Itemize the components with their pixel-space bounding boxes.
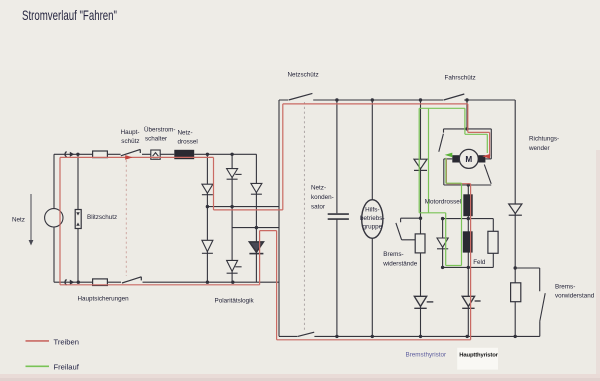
node bottom rail auxiliary bbox=[371, 335, 374, 338]
bus A mid rail bbox=[207, 206, 279, 208]
arrow Netz feed bbox=[29, 194, 34, 246]
node bottom rail right branch bbox=[514, 335, 517, 338]
svg-text:Feld: Feld bbox=[473, 259, 486, 266]
wire bottom main bbox=[54, 281, 279, 283]
switch Bremswiderstand bypass bbox=[396, 218, 421, 240]
red Treiben motor exit bbox=[446, 159, 470, 340]
wire top main bbox=[54, 153, 257, 155]
wire Motordrossel line bbox=[467, 185, 469, 336]
wire bottom thyristor rail bbox=[279, 335, 540, 337]
node top wire v2 bbox=[230, 153, 233, 156]
node Feld group top middle bbox=[467, 217, 470, 220]
green Freilauf motor exit bbox=[446, 158, 462, 266]
wire Netzschütz horizontal bbox=[279, 99, 515, 101]
red Treiben bottom rail underline bbox=[277, 339, 471, 341]
resistor Bremswiderstand bbox=[415, 234, 425, 253]
connector (plug contact) top bbox=[65, 152, 74, 157]
capacitor Netzkondensator bbox=[328, 214, 349, 219]
node Feld group bottom left bbox=[441, 266, 444, 269]
red legend sample Treiben bbox=[26, 340, 50, 342]
switch reverser lower-right bbox=[484, 165, 491, 184]
svg-text:Blitzschutz: Blitzschutz bbox=[87, 214, 117, 221]
polarity bridge vertical 1 bbox=[206, 154, 208, 282]
svg-text:gruppe: gruppe bbox=[362, 223, 382, 230]
diode D1 (upper left) bbox=[202, 184, 213, 195]
switch Netzschütz bottom contact bbox=[298, 332, 315, 336]
Richtungswender bottom rail bbox=[444, 184, 491, 186]
overcurrent breaker box U-schalter bbox=[151, 150, 160, 159]
fuse F2 bottom (Hauptsicherung) bbox=[93, 279, 108, 286]
diode D2 (upper middle) bbox=[227, 169, 242, 180]
svg-text:M: M bbox=[465, 155, 472, 164]
red Treiben bus A underline bbox=[214, 104, 283, 210]
green Freilauf field loop bbox=[419, 213, 461, 266]
svg-text:Hilfs-: Hilfs- bbox=[365, 207, 379, 214]
node rail B diode junction bbox=[255, 226, 258, 229]
green arrow out of motor bbox=[445, 153, 453, 158]
Richtungswender top rail bbox=[444, 129, 492, 159]
svg-text:Motordrossel: Motordrossel bbox=[425, 199, 461, 206]
diode D5 (lower middle) bbox=[227, 260, 242, 273]
svg-text:konden-: konden- bbox=[311, 194, 334, 201]
brush left bbox=[452, 155, 459, 162]
connector (plug contact) bottom bbox=[65, 280, 74, 285]
svg-text:widerstände: widerstände bbox=[382, 261, 417, 268]
svg-text:vorwiderstand: vorwiderstand bbox=[555, 293, 595, 300]
motor M armature bbox=[459, 149, 478, 168]
node bottom rail capacitor bbox=[335, 335, 338, 338]
Feld group bottom rail bbox=[443, 266, 494, 268]
Hauptschütz linkage dashed bbox=[125, 160, 127, 276]
node Fahrschütz wire motor tap bbox=[465, 98, 468, 101]
node Netzschütz wire auxiliary tap bbox=[371, 98, 374, 101]
svg-text:Netzschütz: Netzschütz bbox=[288, 72, 319, 79]
node Bremsvorwiderstand branch bbox=[514, 266, 517, 269]
wire Hilfsbetriebsgruppe branch bbox=[371, 100, 373, 336]
rail B lower rail bbox=[232, 227, 279, 229]
inductor Netzdrossel bbox=[174, 150, 194, 159]
red Treiben top drop bbox=[213, 157, 215, 210]
node Feld group top left bbox=[441, 217, 444, 220]
switch brake contact bbox=[540, 293, 545, 336]
wire left vertical (Netz feed) bbox=[53, 154, 55, 282]
Feld group top rail bbox=[443, 218, 494, 220]
node bottom rail brake branch bbox=[419, 335, 422, 338]
red Treiben motor approach bbox=[468, 104, 490, 156]
wire Feld bypass diode branch bbox=[442, 219, 444, 268]
node bottom wire v2 bbox=[231, 281, 234, 284]
diode D3 (upper right) bbox=[251, 183, 262, 194]
motor right terminal bbox=[485, 158, 491, 160]
wire brake branch vertical bbox=[420, 100, 422, 336]
svg-text:Hauptthyristor: Hauptthyristor bbox=[459, 353, 498, 359]
wire Bremsvorwiderstand vertical bbox=[514, 100, 516, 336]
switch Fahrschütz contact bbox=[444, 94, 465, 100]
node top wire v1 bbox=[206, 153, 209, 156]
svg-text:wender: wender bbox=[528, 145, 550, 152]
svg-text:Richtungs-: Richtungs- bbox=[529, 135, 559, 142]
resistor Bremsvorwiderstand bbox=[511, 283, 521, 302]
svg-text:sator: sator bbox=[311, 204, 325, 211]
svg-text:Netz-: Netz- bbox=[311, 185, 326, 192]
svg-text:drossel: drossel bbox=[178, 139, 198, 146]
red Treiben Netzschütz run bbox=[283, 103, 468, 105]
brush right bbox=[478, 155, 485, 162]
switch reverser upper-left bbox=[439, 129, 444, 152]
svg-text:Bremsthyristor: Bremsthyristor bbox=[406, 352, 447, 359]
node Motordrossel top bbox=[467, 183, 470, 186]
diode D6 (lower right, heavy) bbox=[249, 242, 263, 254]
motor left terminal bbox=[444, 158, 453, 160]
diode Feld freewheel bbox=[437, 238, 448, 249]
polarity bridge vertical 2 bbox=[231, 154, 233, 282]
svg-text:schütz: schütz bbox=[121, 138, 139, 145]
machine Hilfsbetriebsgruppe bbox=[362, 200, 383, 239]
svg-text:Brems-: Brems- bbox=[555, 284, 575, 291]
label patch Hauptthyristor bbox=[457, 348, 498, 370]
node Netzschütz wire brake branch tap bbox=[419, 98, 422, 101]
svg-text:Überstrom-: Überstrom- bbox=[144, 126, 176, 134]
Blitzschutz branch wire bbox=[77, 154, 79, 282]
wire motor feed vertical bbox=[466, 100, 468, 128]
svg-text:Polaritätslogik: Polaritätslogik bbox=[215, 298, 255, 305]
node brake branch bypass junction bbox=[419, 217, 422, 220]
switch Hauptschütz top contact bbox=[121, 149, 141, 155]
node bottom rail motor line bbox=[466, 335, 469, 338]
wire brake contact branch bbox=[515, 268, 540, 291]
node top connector junction bbox=[76, 153, 79, 156]
svg-text:Hauptsicherungen: Hauptsicherungen bbox=[78, 296, 130, 303]
red Treiben path left loop bbox=[60, 157, 260, 284]
Netzschütz linkage dashed bbox=[303, 102, 305, 331]
svg-text:Treiben: Treiben bbox=[54, 338, 79, 347]
main right vertical trunk bbox=[278, 100, 280, 336]
svg-text:Freilauf: Freilauf bbox=[54, 363, 80, 372]
winding Feld bbox=[463, 231, 473, 252]
red Treiben return riser bbox=[260, 231, 277, 340]
fuse F1 top (Hauptsicherung) bbox=[93, 151, 108, 158]
switch Netzschütz contact bbox=[289, 93, 313, 100]
green legend sample Freilauf bbox=[26, 365, 50, 367]
green Freilauf motor approach bbox=[465, 108, 487, 153]
svg-text:Fahrschütz: Fahrschütz bbox=[445, 75, 476, 82]
wire motor left down bbox=[443, 159, 445, 185]
green Freilauf top run bbox=[419, 107, 465, 109]
wire Feld shunt resistor branch bbox=[492, 219, 494, 268]
svg-text:betriebs-: betriebs- bbox=[360, 215, 385, 222]
svg-text:Stromverlauf "Fahren": Stromverlauf "Fahren" bbox=[22, 8, 117, 23]
diode right branch bbox=[509, 204, 522, 215]
Blitzschutz component bbox=[75, 210, 81, 229]
svg-text:schalter: schalter bbox=[145, 136, 167, 143]
diode freewheel bbox=[414, 159, 427, 170]
red arrow after Hauptschütz bbox=[125, 155, 132, 160]
svg-text:Netz-: Netz- bbox=[178, 130, 193, 137]
green Freilauf riser left bbox=[418, 108, 420, 213]
node bus A middle bbox=[230, 205, 233, 208]
inductor Motordrossel bbox=[463, 194, 472, 216]
thyristor Hauptthyristor bbox=[462, 296, 480, 308]
source circle Netz bbox=[45, 209, 63, 227]
wire Netzkondensator branch bbox=[336, 100, 338, 336]
red arrow into motor bbox=[482, 154, 490, 159]
svg-text:Netz: Netz bbox=[12, 217, 25, 224]
green Freilauf riser right bbox=[428, 108, 430, 213]
node bottom wire v1 bbox=[206, 281, 209, 284]
thyristor Bremsthyristor bbox=[414, 296, 433, 308]
node Feld group bottom middle bbox=[467, 266, 470, 269]
polarity bridge vertical 3 bbox=[255, 154, 257, 282]
svg-text:Brems-: Brems- bbox=[383, 251, 403, 258]
resistor Feld shunt bbox=[488, 231, 498, 253]
node bottom connector junction bbox=[77, 281, 80, 284]
svg-text:Haupt-: Haupt- bbox=[121, 129, 140, 136]
switch Hauptschütz bottom contact bbox=[122, 277, 141, 283]
node top rail feed bbox=[465, 127, 468, 130]
diode D4 (lower left) bbox=[202, 240, 213, 253]
node Netzschütz wire capacitor tap bbox=[335, 98, 338, 101]
node bus A left bbox=[206, 205, 209, 208]
